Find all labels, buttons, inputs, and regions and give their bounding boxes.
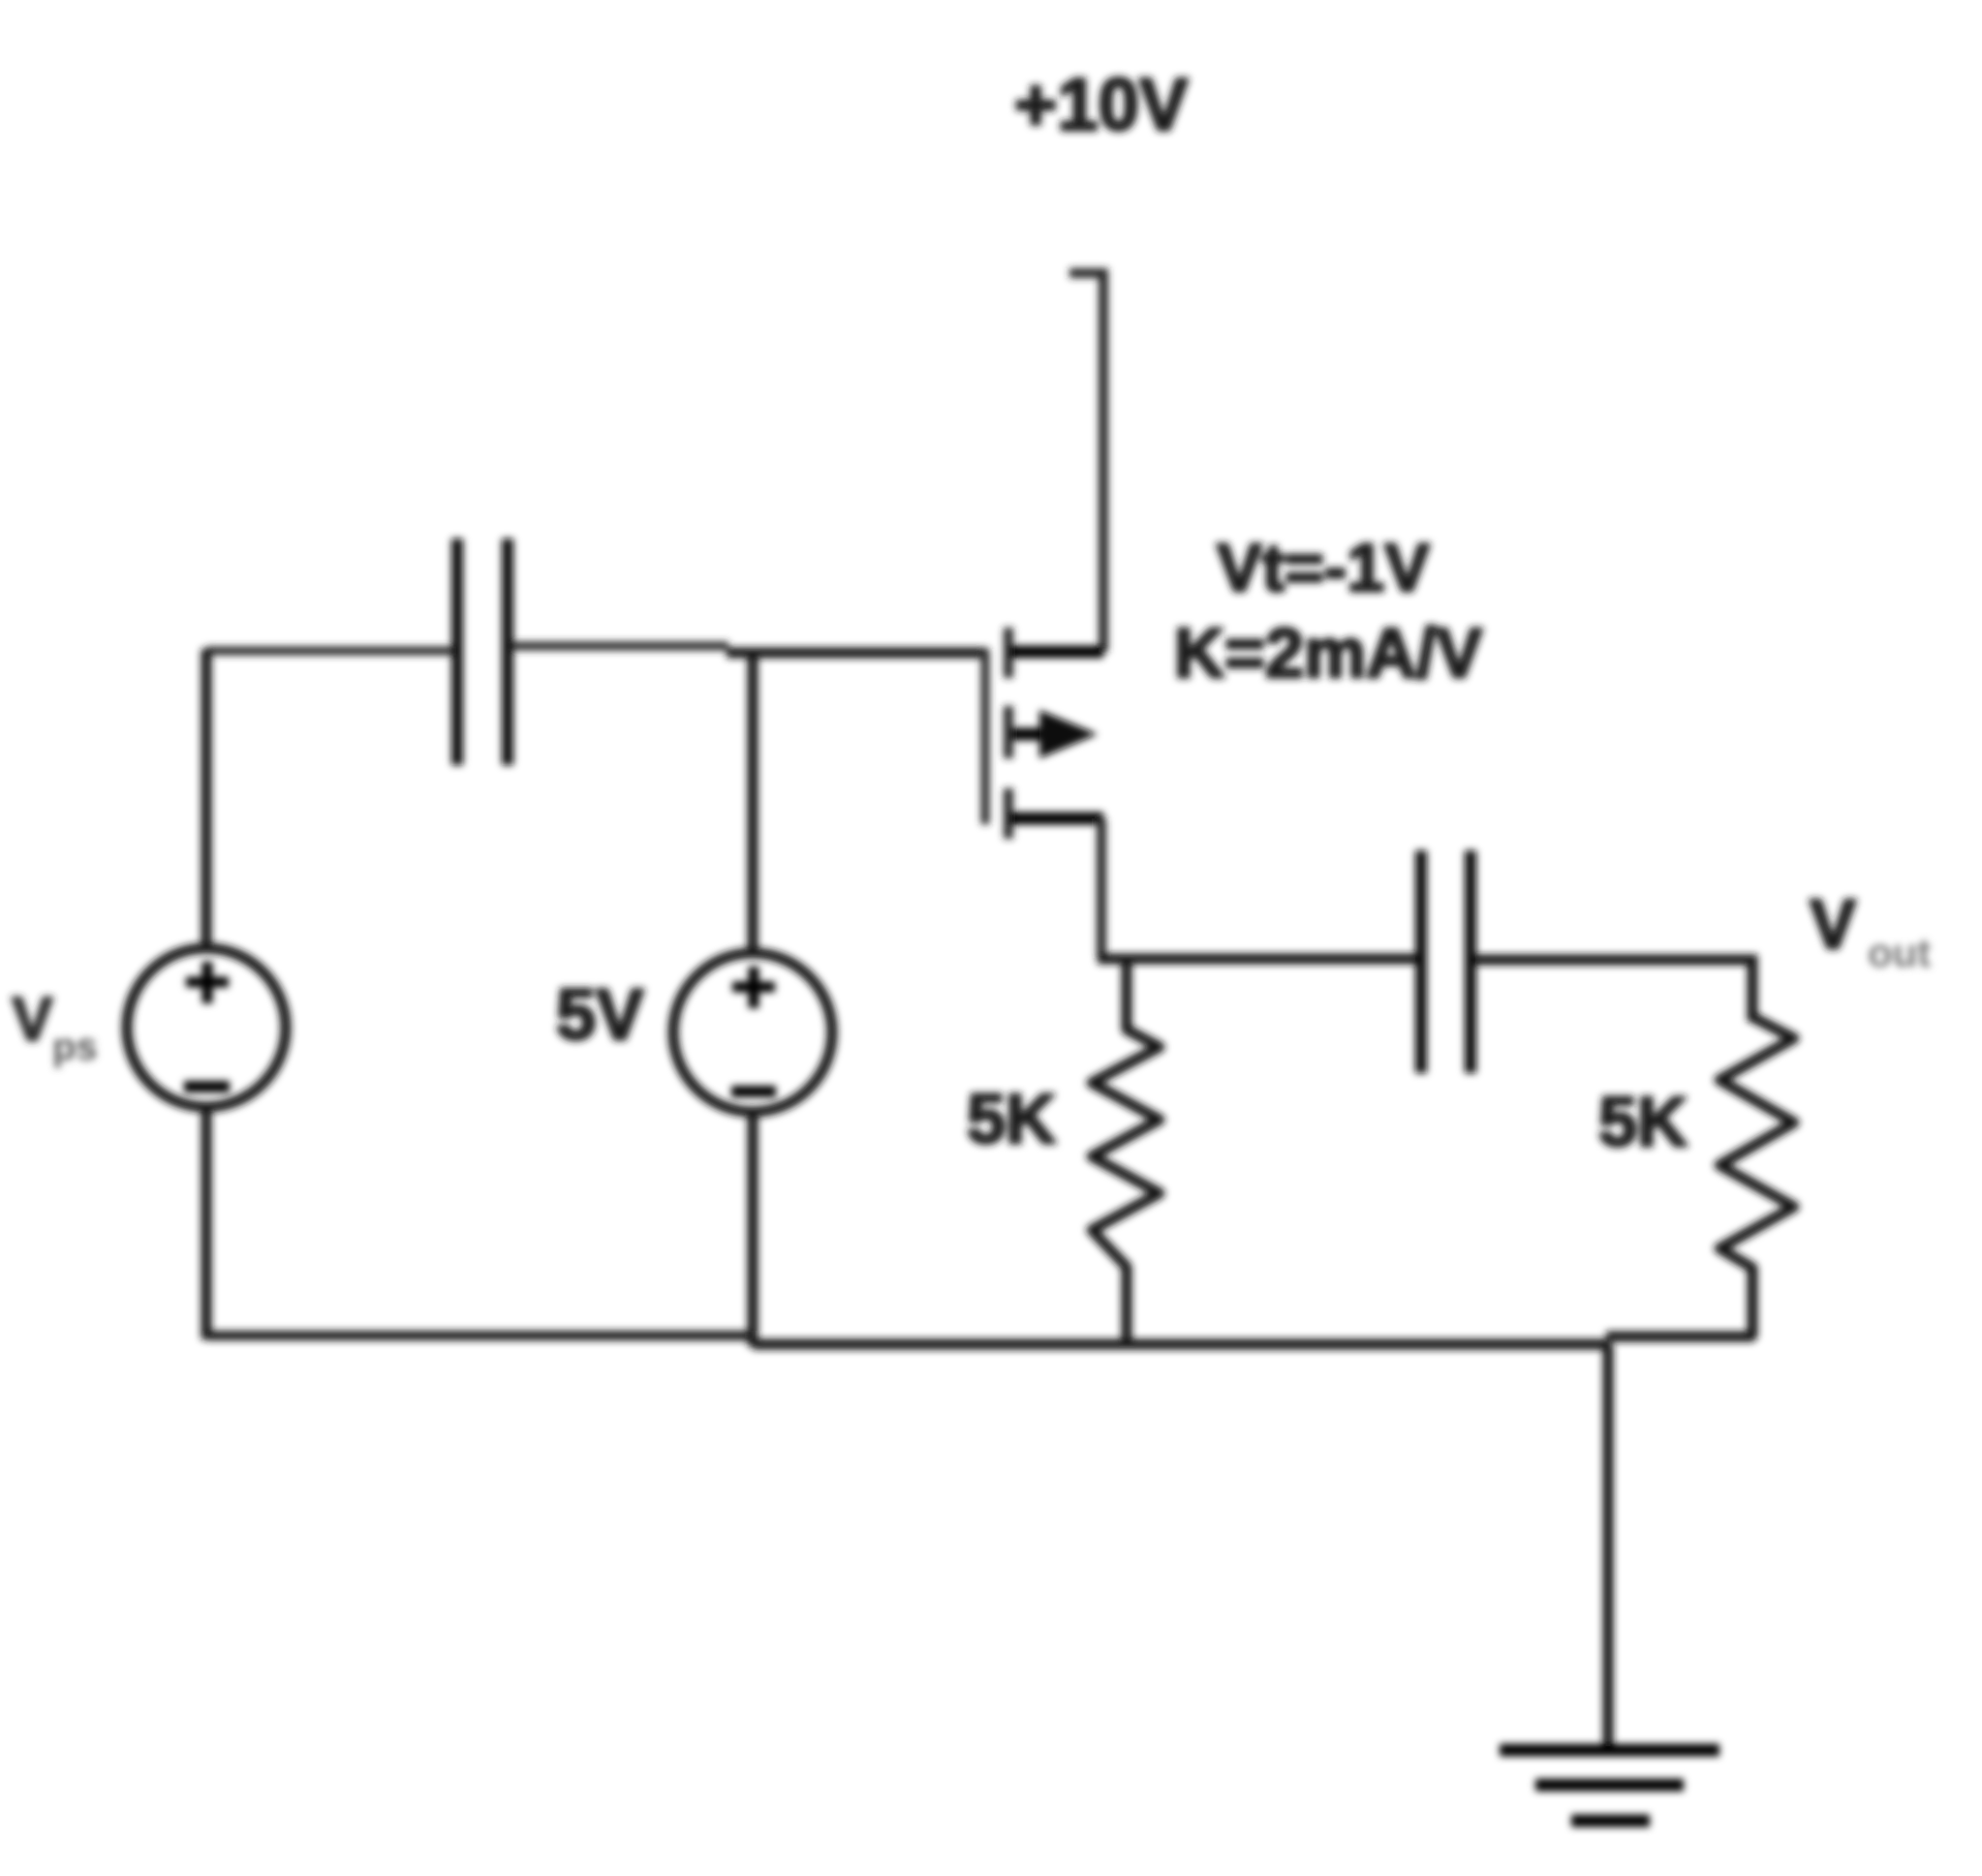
wire input node to capacitor C1 left plate <box>206 647 451 656</box>
voltage source V5 bottom lead <box>748 1110 759 1346</box>
svg-text:V: V <box>1810 886 1856 964</box>
svg-text:Vt=-1V: Vt=-1V <box>1217 530 1430 605</box>
wire capacitor C2 right plate to output corner <box>1475 960 1752 1022</box>
transistor M1 drain stub <box>1010 646 1103 659</box>
voltage source V5 minus sign <box>731 1086 776 1097</box>
wire source node to capacitor C2 left plate <box>1098 954 1417 965</box>
ground bar 3 <box>1571 1815 1650 1828</box>
transistor M1 source stub <box>1010 813 1103 825</box>
capacitor C2 right plate <box>1465 850 1476 1073</box>
svg-text:V: V <box>12 984 53 1054</box>
voltage source V5 plus sign <box>732 967 775 1008</box>
svg-text:5K: 5K <box>1598 1084 1688 1161</box>
transistor M1 channel segment middle <box>1004 706 1013 758</box>
resistor R1 5K (source resistor) <box>1092 961 1160 1346</box>
capacitor C2 left plate <box>1415 850 1427 1073</box>
voltage source Vps minus sign <box>184 1081 230 1092</box>
svg-text:K=2mA/V: K=2mA/V <box>1174 615 1482 692</box>
ground stem <box>1603 1344 1614 1749</box>
voltage source Vps plus sign <box>186 962 229 1003</box>
voltage source Vps top lead <box>201 649 212 951</box>
voltage source V5 circle <box>673 953 832 1112</box>
ground bar 1 <box>1500 1744 1719 1757</box>
bottom rail wire middle segment <box>753 1339 1610 1350</box>
transistor M1 channel segment bottom <box>1004 788 1013 839</box>
svg-text:ps: ps <box>52 1026 98 1068</box>
capacitor C1 right plate <box>502 538 513 765</box>
resistor R2 5K (load resistor) <box>1719 1017 1794 1338</box>
node +10V supply rail wire <box>1069 273 1103 652</box>
wire transistor source down to output node <box>1097 818 1106 958</box>
transistor M1 channel segment top <box>1004 628 1013 678</box>
wire capacitor C1 to gate node <box>512 642 728 651</box>
transistor M1 gate bar <box>981 649 990 824</box>
voltage source Vps circle <box>127 948 286 1107</box>
svg-text:+10V: +10V <box>1014 64 1189 146</box>
voltage source Vps bottom lead <box>201 1105 212 1339</box>
svg-text:5V: 5V <box>556 974 644 1055</box>
bottom rail wire left segment <box>206 1331 757 1340</box>
voltage source V5 top lead <box>748 651 759 955</box>
bottom rail wire right segment <box>1606 1332 1754 1342</box>
wire gate node to transistor gate <box>727 648 987 659</box>
svg-text:out: out <box>1868 930 1931 975</box>
capacitor C1 left plate <box>451 538 463 765</box>
ground bar 2 <box>1535 1779 1684 1792</box>
transistor M1 body arrow <box>1012 728 1056 741</box>
svg-text:5K: 5K <box>967 1081 1056 1158</box>
